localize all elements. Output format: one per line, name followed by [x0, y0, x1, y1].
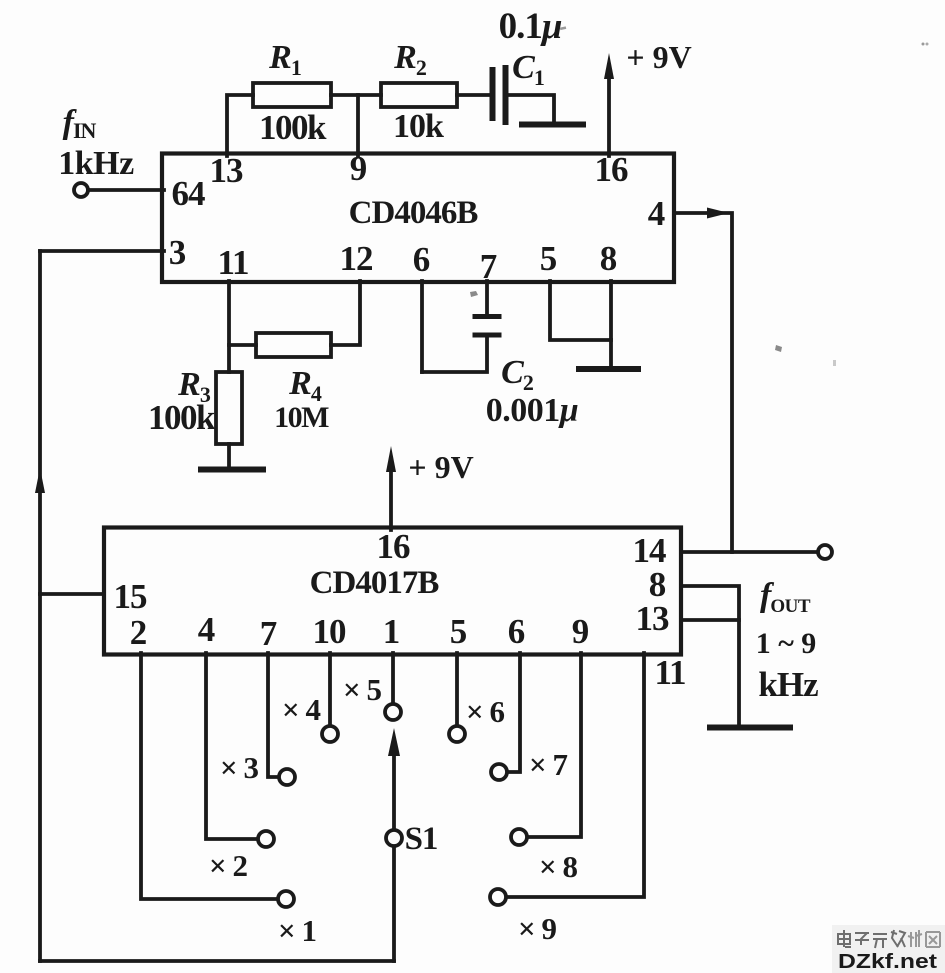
svg-text:DZkf.net: DZkf.net [838, 951, 937, 973]
wire R1 right to R2 left (node pin9) [331, 93, 381, 97]
wire pin3 U1 to left rail [40, 249, 164, 253]
scan speck artifacts [470, 26, 929, 366]
svg-text:8: 8 [600, 239, 617, 278]
svg-text:6: 6 [413, 240, 430, 279]
wire pin13 U1 to R1 left [227, 95, 253, 156]
power +9V arrow U2 [389, 469, 393, 530]
wire pin14 U2 to output terminal [681, 550, 818, 554]
contact x7 [491, 764, 507, 780]
svg-text:9: 9 [572, 612, 589, 651]
capacitor C2 bottom plate [475, 333, 499, 338]
wire pin13 U2 [681, 618, 739, 622]
wire f_IN to pin 64 [88, 188, 164, 192]
svg-text:7: 7 [480, 247, 497, 286]
svg-text:5: 5 [450, 612, 467, 651]
resistor R2 [381, 83, 457, 107]
svg-text:× 7: × 7 [529, 747, 567, 782]
ground under pin8 [579, 366, 638, 372]
svg-text:4: 4 [198, 610, 215, 649]
svg-text:0.1μ: 0.1μ [499, 6, 562, 47]
switch S1 wiper arrow [392, 752, 396, 829]
svg-text:× 8: × 8 [539, 849, 577, 884]
contact x8 [511, 829, 527, 845]
contact x3 [279, 769, 295, 785]
wire pin4 U1 output [674, 213, 732, 552]
wire R4 right lead to pin12 [331, 281, 360, 345]
IC U1 CD4046B [162, 154, 674, 283]
resistor R3 [216, 372, 242, 444]
wire bottom rail [40, 959, 394, 963]
wire R4 left lead from node [229, 343, 256, 347]
wire pin1 U2 to x5 contact [391, 653, 395, 704]
wire pin11 U2 to x9 contact [506, 653, 644, 897]
svg-text:11: 11 [654, 653, 685, 692]
svg-text:CD4046B: CD4046B [349, 195, 479, 231]
svg-text:10M: 10M [274, 401, 329, 434]
wire pin8 U2 [681, 586, 739, 725]
svg-text:9: 9 [350, 149, 367, 188]
capacitor C2 top plate [475, 314, 499, 319]
svg-text:100k: 100k [148, 398, 216, 437]
wire pin8 U1 down [609, 281, 613, 366]
svg-text:+ 9V: + 9V [408, 449, 473, 485]
wire R3 bottom stem [227, 444, 231, 467]
wire pin7 U2 to x3 contact [268, 653, 279, 777]
wire pin9 U2 to x8 contact [527, 653, 581, 837]
watermark background [832, 925, 945, 973]
svg-text:100k: 100k [259, 108, 327, 147]
wire C2 bottom link [422, 337, 487, 372]
wire pin2 U2 to x1 contact [141, 653, 278, 899]
svg-text:11: 11 [217, 243, 248, 282]
switch S1 pole [386, 830, 402, 846]
ground under f_OUT [710, 725, 790, 731]
svg-text:CD4017B: CD4017B [310, 565, 440, 601]
svg-text:× 1: × 1 [278, 913, 316, 948]
svg-text:× 9: × 9 [518, 911, 556, 946]
svg-text:10: 10 [313, 612, 347, 651]
svg-text:12: 12 [340, 239, 373, 278]
wire pin10 U2 to x4 contact [328, 653, 332, 726]
contact x5 [385, 704, 401, 720]
wire branch to pin15 U2 [40, 592, 104, 596]
svg-text:16: 16 [377, 527, 411, 566]
svg-text:0.001μ: 0.001μ [486, 392, 578, 429]
input terminal f_IN [74, 183, 88, 197]
svg-text:13: 13 [636, 599, 670, 638]
wire pin6 U2 to x7 contact [507, 653, 520, 772]
svg-text:7: 7 [260, 614, 277, 653]
watermark CJK glyph strokes [838, 930, 905, 948]
svg-text:× 6: × 6 [466, 694, 504, 729]
svg-text:1: 1 [383, 612, 400, 651]
svg-text:16: 16 [595, 150, 629, 189]
wire S1 riser [392, 846, 396, 961]
output terminal circle [818, 545, 832, 559]
arrow up on left rail [35, 468, 45, 493]
IC U2 CD4017B [104, 528, 681, 655]
contact x6 [449, 726, 465, 742]
svg-text:6: 6 [508, 612, 525, 651]
svg-text:5: 5 [540, 239, 557, 278]
wire pin11 U1 down [227, 281, 231, 372]
wire pin9 riser [356, 95, 360, 156]
ground under R3 [201, 467, 263, 473]
svg-text:64: 64 [172, 174, 206, 213]
svg-text:10k: 10k [393, 108, 444, 145]
contact x9 [490, 889, 506, 905]
svg-text:4: 4 [648, 194, 665, 233]
wire R2 right to C1 [457, 93, 489, 97]
svg-text:× 3: × 3 [220, 750, 258, 785]
wire pin6 U1 down [420, 281, 424, 372]
svg-text:1kHz: 1kHz [58, 145, 134, 182]
svg-text:3: 3 [169, 233, 186, 272]
contact x4 [322, 726, 338, 742]
power +9V arrow U1 [607, 76, 611, 156]
svg-text:1 ~ 9: 1 ~ 9 [756, 627, 817, 660]
wire pin5 U2 to x6 contact [455, 653, 459, 726]
svg-text:2: 2 [130, 613, 147, 652]
svg-text:× 2: × 2 [209, 848, 247, 883]
wire left rail vertical [38, 251, 42, 961]
svg-text:+ 9V: + 9V [626, 39, 691, 75]
ground under C1 [522, 122, 583, 128]
svg-text:× 5: × 5 [343, 672, 381, 707]
capacitor C1 plates [490, 70, 496, 118]
wire pin5 U1 down [550, 281, 611, 340]
wire pin4 U2 to x2 contact [206, 653, 258, 839]
svg-text:× 4: × 4 [282, 692, 320, 727]
svg-text:13: 13 [210, 151, 244, 190]
svg-text:kHz: kHz [758, 665, 818, 704]
contact x1 [278, 891, 294, 907]
contact x2 [258, 831, 274, 847]
wire pin7 U1 to C2 [485, 281, 489, 314]
svg-text:15: 15 [114, 577, 148, 616]
wire C1 right to ground [508, 95, 554, 122]
resistor R4 [256, 333, 331, 357]
arrow right on pin4 wire [707, 208, 729, 219]
svg-text:S1: S1 [405, 821, 438, 857]
resistor R1 [253, 83, 331, 107]
